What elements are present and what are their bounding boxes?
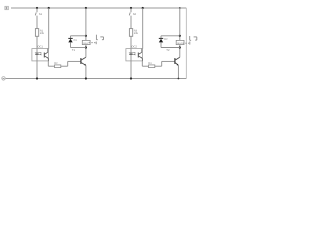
switch S1 [35,8,37,29]
svg-text:REL2: REL2 [177,42,183,45]
bottom return rail wire [6,78,187,80]
svg-text:S1: S1 [39,13,43,16]
svg-text:T1: T1 [72,49,76,52]
node top S2 [130,7,132,9]
wire LED1 cathode to bottom rail [36,61,38,79]
wire diode 1 bottom branch [71,47,86,49]
optocoupler U1 LED [35,49,39,61]
relay K2 actuator dashed link [183,42,189,44]
wire R1 to optocoupler [36,36,38,48]
node diode 1 top [85,35,87,37]
node diode 2 top [179,35,181,37]
wire emitter 1 to R2 [48,65,54,67]
wire collector riser 2 [142,8,144,49]
wire emitter 1 down [47,61,49,66]
node bottom emitter 2 [178,78,180,80]
wire R3 to optocoupler 2 [130,36,132,48]
wire emitter 2 down [141,61,143,66]
node top relay riser 1 [85,7,87,9]
resistor R4 [149,65,155,68]
svg-text:REL1: REL1 [83,42,89,45]
relay coil K2 [176,40,184,44]
switch S2 [129,8,131,29]
wire diode 2 top branch [161,35,180,37]
relay coil K1 [82,40,90,44]
optocoupler U2 LED [129,49,133,61]
optocoupler U1 box [32,49,49,61]
svg-text:S2: S2 [133,13,137,16]
wire collector riser 1 [48,8,50,49]
node diode 1 bottom [85,46,87,48]
wire coil2 to collector node [179,45,181,48]
top supply rail wire [11,7,186,9]
wire LED2 cathode to bottom rail [130,61,132,79]
resistor R1 [35,29,38,37]
node bottom LED2 [130,77,132,79]
wire T1 emitter down [85,65,87,78]
optocoupler U2 box [126,49,143,61]
node top relay riser 2 [179,7,181,9]
node bottom LED1 [36,77,38,79]
node top S1 [36,7,38,9]
wire T2 emitter down [177,65,179,78]
resistor R2 [55,65,61,68]
label R3 value [134,29,139,35]
wire T2 collector up [179,48,181,58]
optocoupler U2 phototransistor [138,49,142,61]
svg-text:D1: D1 [74,39,78,42]
relay contact K1 [96,35,103,45]
relay K1 actuator dashed link [89,42,96,44]
label R1 value [40,29,45,35]
wire R2 to base T1 [61,61,81,66]
node bottom emitter 1 [85,77,87,79]
svg-text:10k: 10k [134,32,139,35]
wire R4 to base T2 [155,61,175,66]
wire diode 2 bottom branch [161,47,180,49]
battery minus terminal [2,77,5,80]
optocoupler U1 light arrows [39,52,41,55]
svg-text:D2: D2 [164,38,168,41]
node top collector riser 2 [142,7,144,9]
wire relay riser 2 [179,8,181,40]
wire diode 1 top branch [71,35,86,37]
transistor T1 [81,57,86,65]
node diode 2 bottom [179,46,181,48]
diode D1 [68,36,72,48]
battery plus terminal [5,6,8,9]
resistor R3 [129,29,132,37]
svg-text:T2: T2 [166,49,170,52]
svg-text:10k: 10k [40,32,45,35]
wire relay riser 1 [85,8,87,40]
relay contact K2 [190,36,197,45]
wire T1 collector up [85,48,87,58]
diode D2 [159,36,163,48]
transistor T2 [175,57,180,65]
wire emitter 2 to R4 [142,65,148,67]
wire coil1 to collector node [85,45,87,48]
optocoupler U1 phototransistor [44,49,48,61]
optocoupler U2 light arrows [133,52,135,55]
right edge wire [185,8,187,79]
node top collector riser 1 [48,7,50,9]
